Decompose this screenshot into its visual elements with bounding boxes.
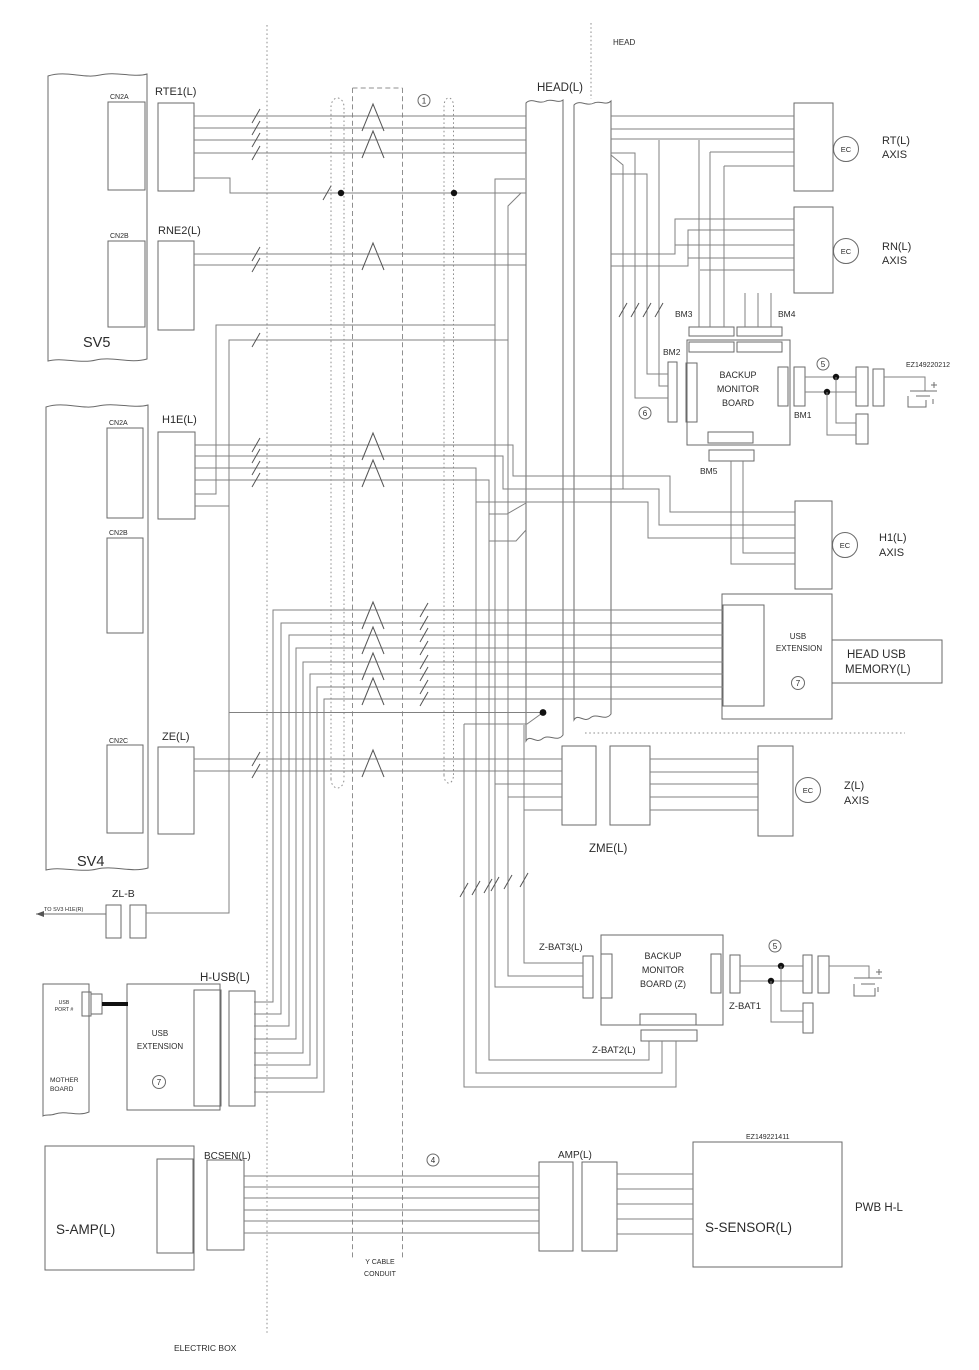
board MOTHER BOARD <box>43 984 89 1116</box>
svg-text:1: 1 <box>422 97 427 106</box>
wire ZME feed 1 <box>495 783 562 785</box>
svg-text:MEMORY(L): MEMORY(L) <box>845 664 911 676</box>
wire H-USB bundle 3 <box>254 635 723 1026</box>
svg-text:S-SENSOR(L): S-SENSOR(L) <box>705 1220 792 1235</box>
wire H-USB bundle 5 <box>254 662 723 1053</box>
wire Z-BAT1 branch to lower bar 1 <box>781 966 803 1011</box>
svg-text:ZL-B: ZL-B <box>112 888 135 900</box>
wire BM5 to H1 axis 1 <box>743 461 795 553</box>
wire H-USB bundle 1 <box>254 610 723 1002</box>
connector BM2 outer <box>668 362 677 422</box>
svg-text:USB: USB <box>59 1000 70 1006</box>
connector BM5 outer <box>709 450 754 461</box>
wire RTE1 pin3 <box>194 139 526 141</box>
head boundary dotted line <box>590 23 592 99</box>
board SV5 <box>48 74 147 362</box>
wire RT pin3 <box>611 138 794 140</box>
connector USB EXTENSION inner bar (bottom) <box>194 990 221 1106</box>
svg-text:BOARD (Z): BOARD (Z) <box>640 979 686 989</box>
svg-text:USB: USB <box>790 632 806 641</box>
cable break slashes on Z verticals <box>460 873 528 897</box>
connector CN2A (SV4) <box>107 428 143 518</box>
svg-text:BOARD: BOARD <box>50 1086 74 1093</box>
wire Z vertical 2 to Z-BAT2 <box>476 502 662 1073</box>
svg-text:CN2B: CN2B <box>109 530 128 537</box>
connector BM3 inner <box>689 342 734 352</box>
wire duct entry stub <box>489 530 526 541</box>
connector ZME(L) left <box>562 746 596 825</box>
svg-text:CN2A: CN2A <box>109 420 128 427</box>
svg-text:RTE1(L): RTE1(L) <box>155 86 196 98</box>
wire H1E pin6 stub <box>195 505 229 507</box>
circled number 6 <box>639 407 651 419</box>
svg-text:Z(L): Z(L) <box>844 780 864 792</box>
connector Z-BAT3 outer <box>583 956 593 998</box>
svg-text:H-USB(L): H-USB(L) <box>200 972 250 984</box>
box H1 axis <box>795 501 832 589</box>
cable break slashes on head bundle <box>420 603 428 706</box>
svg-text:EC: EC <box>840 541 851 550</box>
svg-text:BACKUP: BACKUP <box>644 951 681 961</box>
circled number 5 (top) <box>817 358 829 370</box>
wire ZME feed 3 <box>524 809 562 811</box>
svg-text:Y CABLE: Y CABLE <box>365 1259 395 1266</box>
connector Z-BAT2 inner <box>640 1014 696 1025</box>
box Z axis <box>758 746 793 836</box>
wire ZE pin2 <box>194 770 562 772</box>
wire BM4 feed 2 <box>757 293 759 327</box>
svg-text:7: 7 <box>796 679 801 688</box>
wire BM2 feed 2 via vertical 659 <box>659 140 668 386</box>
svg-text:HEAD: HEAD <box>613 38 635 47</box>
svg-text:USB: USB <box>152 1029 168 1038</box>
wire bar stub to long vertical A <box>495 179 583 987</box>
connector RNE2(L) <box>158 241 194 330</box>
circled number 1 <box>418 95 430 107</box>
svg-text:CONDUIT: CONDUIT <box>364 1271 397 1278</box>
battery connector lower bar (Z) <box>803 1003 813 1033</box>
wire BM3 feed 2 <box>709 152 711 327</box>
connector Z-BAT1 outer <box>730 955 740 993</box>
EC circle RN <box>834 239 859 264</box>
wire BM2 feed 1 via vertical 647 <box>611 174 668 374</box>
conduit loop 2 dotted <box>444 98 454 783</box>
EC circle Z <box>796 778 821 803</box>
connector ZE(L) <box>158 747 194 834</box>
head area horizontal dotted line <box>585 732 905 734</box>
connector Z-BAT3 inner <box>601 954 612 998</box>
svg-text:SV4: SV4 <box>77 854 104 870</box>
wire RN pin3 <box>675 244 794 246</box>
box RN axis <box>794 207 833 293</box>
svg-text:ELECTRIC BOX: ELECTRIC BOX <box>174 1343 237 1353</box>
junction dot conduit tie 2 <box>451 190 457 196</box>
wire BM1 branch to lower bar 2 <box>827 392 856 435</box>
svg-text:PWB H-L: PWB H-L <box>855 1202 904 1214</box>
svg-text:AMP(L): AMP(L) <box>558 1150 592 1161</box>
wire RNE2 pin1 <box>194 253 526 255</box>
junction dot BM1 upper <box>833 374 839 380</box>
connector H-USB(L) <box>229 991 255 1106</box>
connector S-AMP inner <box>157 1159 193 1253</box>
svg-text:EC: EC <box>841 145 852 154</box>
wire BM1 to battery lower <box>805 391 856 393</box>
svg-text:BM5: BM5 <box>700 466 718 476</box>
connector Z-BAT1 inner <box>711 954 721 993</box>
box BACKUP MONITOR BOARD (Z) <box>601 935 723 1025</box>
wire ZME to Z axis pins <box>650 759 758 810</box>
battery connector bar2 (top) <box>873 369 884 406</box>
board SV4 <box>46 405 148 871</box>
svg-text:BM3: BM3 <box>675 309 693 319</box>
connector CN2A (SV5) <box>108 102 145 190</box>
wire Z vertical 3 to Z-BAT2 <box>489 514 649 1060</box>
connector BM3 outer <box>689 327 734 336</box>
connector ZME(L) right <box>610 746 650 825</box>
svg-text:EC: EC <box>841 247 852 256</box>
connector USB EXTENSION inner bar (head) <box>723 605 764 706</box>
svg-text:ZME(L): ZME(L) <box>589 843 628 855</box>
wire RN pin4 <box>688 257 794 259</box>
svg-text:RNE2(L): RNE2(L) <box>158 225 201 237</box>
svg-text:RN(L): RN(L) <box>882 241 911 253</box>
electric box boundary dotted line <box>266 25 268 1333</box>
wire BM5 to H1 axis 2 <box>731 461 795 564</box>
wire RT pin1 <box>611 115 794 117</box>
connector CN2B (SV4) <box>107 538 143 633</box>
wire RT pin2 <box>611 128 794 130</box>
circled number 4 <box>427 1154 439 1166</box>
wire ZME feed 3 <box>524 725 583 963</box>
connector CN2C (SV4) <box>107 745 143 833</box>
wire H1E pin5 to ZME via upper run <box>195 325 495 494</box>
wire BM4 feed 3 <box>770 293 772 327</box>
wire branch diagonal to long vertical B <box>508 193 583 976</box>
connector BM1 outer <box>794 367 805 406</box>
wire ZE pin1 <box>194 758 562 760</box>
wire H1E pin2 to H1 axis <box>195 456 795 525</box>
wire Z-BAT1 to battery upper <box>740 965 803 967</box>
wire BM2 feed 3 via vertical 635 <box>611 153 668 398</box>
wire H-USB bundle 7 <box>254 687 723 1078</box>
svg-text:BACKUP: BACKUP <box>719 370 756 380</box>
wire RN pin2 <box>611 230 794 266</box>
connector BM2 inner <box>686 363 697 422</box>
Y cable conduit dashed lines <box>353 88 403 1258</box>
wire AMP to S-SENSOR pins <box>617 1174 693 1234</box>
wire USB cable thick <box>102 1002 128 1006</box>
connector ZL-B left bar <box>106 905 121 938</box>
wire RT pin4 <box>710 151 794 153</box>
box RT axis <box>794 103 833 191</box>
wire RTE1 pin5 <box>194 178 526 193</box>
wire battery link (Z) <box>829 966 869 978</box>
wire BCSEN pins <box>244 1176 539 1233</box>
battery connector bar1 (Z) <box>803 955 812 993</box>
wire BM1 branch to lower bar 1 <box>836 377 856 423</box>
svg-text:EXTENSION: EXTENSION <box>776 644 822 653</box>
battery symbol (Z) <box>854 969 882 996</box>
battery connector bar1 (top) <box>856 367 868 406</box>
wire RN pin1 <box>611 219 794 254</box>
svg-text:6: 6 <box>643 409 648 418</box>
connector BM1 inner <box>778 367 788 406</box>
svg-text:5: 5 <box>821 360 826 369</box>
box USB EXTENSION (bottom) <box>127 984 220 1110</box>
wire BM3 feed 1 <box>698 140 700 327</box>
svg-text:EZ149221411: EZ149221411 <box>746 1134 790 1141</box>
svg-text:Z-BAT2(L): Z-BAT2(L) <box>592 1045 636 1056</box>
connector BM4 outer <box>737 327 782 336</box>
wire H-USB bundle 6 <box>254 674 723 1065</box>
wire BM4 feed 1 <box>744 293 746 327</box>
svg-text:MONITOR: MONITOR <box>642 965 685 975</box>
circled number 7 (bottom) <box>153 1076 166 1089</box>
connector AMP(L) bar2 <box>582 1162 617 1251</box>
svg-text:PORT #: PORT # <box>55 1007 74 1013</box>
cable pinch marks in Y conduit <box>362 104 384 777</box>
box BACKUP MONITOR BOARD <box>687 340 790 445</box>
wire RT pin5 <box>724 165 794 167</box>
wire ZME feed 2 <box>508 796 562 798</box>
wire RTE1 pin1 <box>194 115 526 117</box>
svg-text:EXTENSION: EXTENSION <box>137 1042 183 1051</box>
EC circle H1 <box>833 533 858 558</box>
junction dot head clamp <box>540 709 547 716</box>
svg-text:4: 4 <box>431 1156 436 1165</box>
box S-AMP(L) <box>45 1146 194 1270</box>
cable break slashes left column <box>252 109 331 778</box>
svg-text:7: 7 <box>157 1078 162 1087</box>
svg-text:MONITOR: MONITOR <box>717 384 760 394</box>
wire H-USB bundle 4 <box>254 648 723 1039</box>
wire RTE1 pin2 <box>194 127 526 129</box>
svg-text:5: 5 <box>773 942 778 951</box>
wire duct diagonal to vertical 623 <box>611 155 623 489</box>
wire Z vertical 1 to Z-BAT2 <box>464 724 676 1087</box>
wire RNE2 pin2 <box>194 264 526 266</box>
svg-text:HEAD(L): HEAD(L) <box>537 82 583 94</box>
svg-text:EZ149220212: EZ149220212 <box>906 362 950 369</box>
wire head clamp bus <box>229 713 543 725</box>
svg-text:MOTHER: MOTHER <box>50 1077 79 1084</box>
EC circle RT <box>834 137 859 162</box>
connector BCSEN(L) <box>207 1160 244 1250</box>
box USB EXTENSION (head) <box>722 594 832 719</box>
junction dot Z-BAT1 upper <box>778 963 784 969</box>
svg-text:EC: EC <box>803 786 814 795</box>
battery symbol (top) <box>908 382 937 407</box>
svg-text:BOARD: BOARD <box>722 398 755 408</box>
wire Z-BAT1 to battery lower <box>740 980 803 982</box>
svg-text:H1(L): H1(L) <box>879 532 907 544</box>
svg-text:HEAD USB: HEAD USB <box>847 649 906 661</box>
wire Z-BAT1 branch to lower bar 2 <box>771 981 803 1022</box>
battery connector bar2 (Z) <box>818 956 829 993</box>
wire H-USB bundle 2 <box>254 623 723 1014</box>
wire BM3 feed 3 <box>723 166 725 327</box>
wire TO SV3 H1E(R) arrow <box>36 911 106 917</box>
wire H-USB bundle 8 <box>254 699 723 1092</box>
svg-text:AXIS: AXIS <box>879 547 904 559</box>
conduit loop 1 dotted <box>331 98 344 788</box>
wire H1E pin3 to H1 axis <box>195 468 795 538</box>
svg-text:TO SV3 H1E(R): TO SV3 H1E(R) <box>44 907 83 913</box>
HEAD(L) duct left bar <box>526 100 563 741</box>
connector CN2B (SV5) <box>108 241 145 327</box>
svg-text:Z-BAT3(L): Z-BAT3(L) <box>539 942 583 953</box>
svg-text:BM1: BM1 <box>794 410 812 420</box>
connector Z-BAT2 outer <box>641 1030 697 1041</box>
svg-text:SV5: SV5 <box>83 335 110 351</box>
svg-text:CN2B: CN2B <box>110 233 129 240</box>
box S-SENSOR(L) <box>693 1142 842 1267</box>
svg-text:BM4: BM4 <box>778 309 796 319</box>
circled number 5 (Z) <box>769 940 781 952</box>
cable break slashes on BM2 feeds <box>619 303 663 317</box>
wire RTE1 pin4 <box>194 152 526 154</box>
connector H1E(L) <box>158 432 195 519</box>
wire RN pin5 <box>700 269 794 271</box>
box HEAD USB MEMORY(L) <box>832 640 942 683</box>
wire H1E pin1 to H1 axis <box>195 445 795 512</box>
wire battery link (top) <box>884 377 925 391</box>
svg-text:Z-BAT1: Z-BAT1 <box>729 1001 761 1012</box>
connector USB PORT bar2 <box>91 994 102 1014</box>
svg-text:AXIS: AXIS <box>844 795 869 807</box>
connector USB PORT bar1 <box>82 992 91 1016</box>
junction dot BM1 lower <box>824 389 830 395</box>
connector AMP(L) bar1 <box>539 1162 573 1251</box>
connector BM4 inner <box>737 342 782 352</box>
svg-text:S-AMP(L): S-AMP(L) <box>56 1222 115 1237</box>
junction dot Z-BAT1 lower <box>768 978 774 984</box>
HEAD(L) duct right bar <box>574 101 611 720</box>
wire ZL-B daisy chain vertical <box>146 340 508 913</box>
svg-text:BCSEN(L): BCSEN(L) <box>204 1151 251 1162</box>
connector BM5 inner <box>708 432 753 443</box>
connector ZL-B right bar <box>130 905 146 938</box>
wire H1E pin4 <box>195 480 526 514</box>
battery connector lower bar (top) <box>856 414 868 444</box>
svg-text:CN2C: CN2C <box>109 738 128 745</box>
svg-text:ZE(L): ZE(L) <box>162 731 190 743</box>
circled number 7 (head) <box>792 677 805 690</box>
svg-text:AXIS: AXIS <box>882 255 907 267</box>
svg-text:AXIS: AXIS <box>882 149 907 161</box>
wire BM1 to battery upper <box>805 376 856 378</box>
connector RTE1(L) <box>158 103 194 191</box>
svg-text:RT(L): RT(L) <box>882 135 910 147</box>
junction dot conduit tie 1 <box>338 190 344 196</box>
svg-text:CN2A: CN2A <box>110 94 129 101</box>
labels <box>109 94 129 745</box>
svg-text:BM2: BM2 <box>663 347 681 357</box>
svg-text:H1E(L): H1E(L) <box>162 414 197 426</box>
